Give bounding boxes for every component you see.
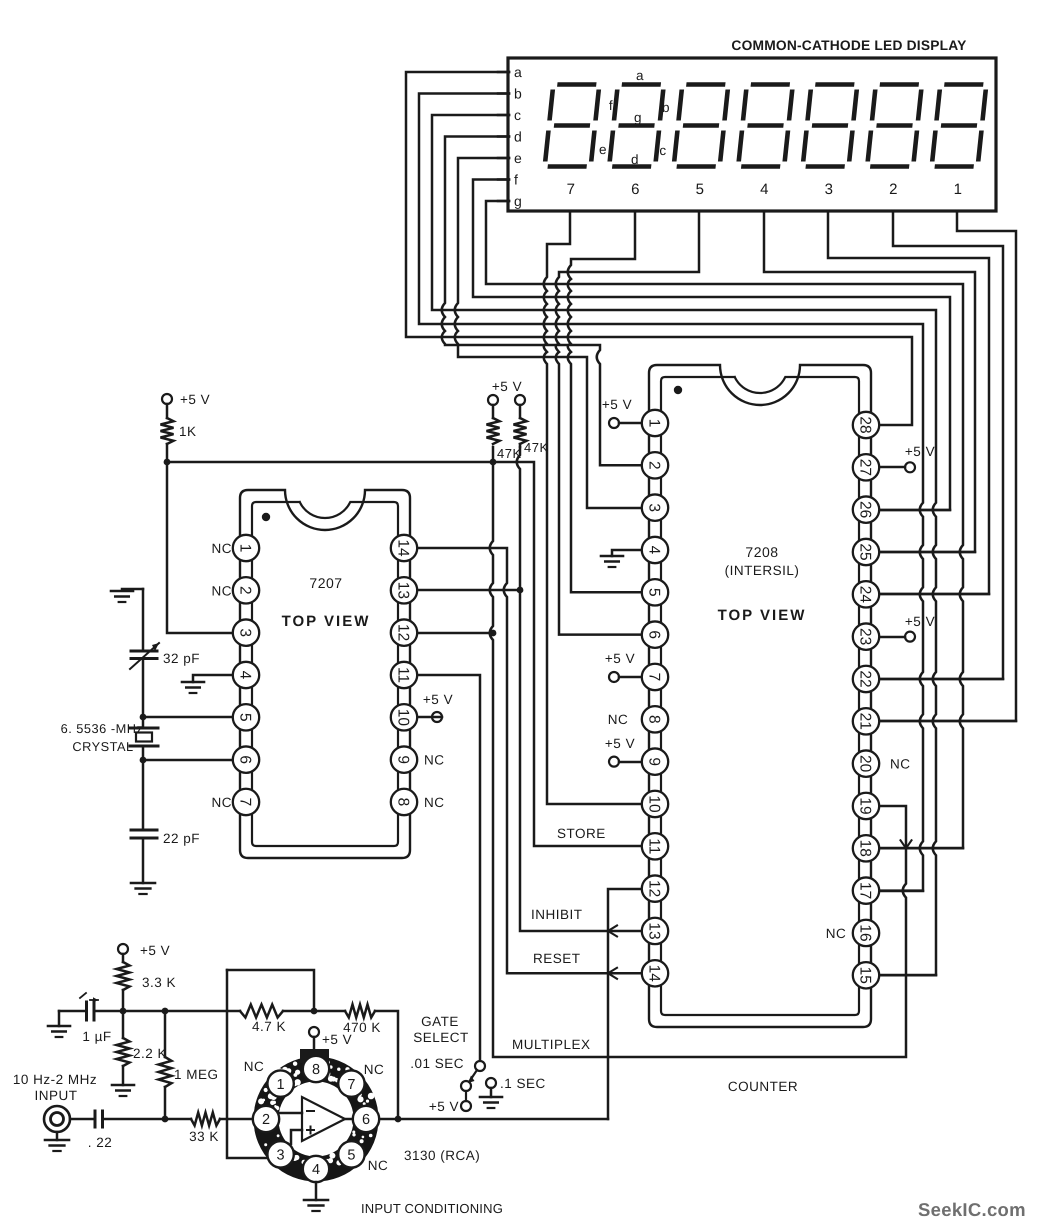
svg-text:6. 5536 -MHz: 6. 5536 -MHz (61, 721, 144, 736)
label MULTIPLEX (512, 1037, 591, 1052)
feedback top loop wire (227, 970, 314, 1011)
display digit 6 seven-segment glyph (609, 85, 664, 167)
svg-text:4: 4 (760, 181, 769, 198)
svg-text:SELECT: SELECT (413, 1030, 469, 1045)
svg-text:9: 9 (646, 757, 663, 766)
wire 1K pull-up line to STORE (7208 pin 11) (164, 459, 642, 846)
wire 7208 pin 21 (879, 720, 1016, 723)
svg-text:NC: NC (890, 757, 911, 772)
svg-text:+5 V: +5 V (605, 651, 635, 666)
ground at 7208 pin 4 (601, 550, 642, 567)
svg-text:13: 13 (395, 582, 412, 599)
svg-text:1 µF: 1 µF (82, 1029, 111, 1044)
svg-text:NC: NC (424, 753, 445, 768)
svg-text:MULTIPLEX: MULTIPLEX (512, 1037, 591, 1052)
wire segment-c (display c to 7208 pin 15) (432, 115, 936, 975)
ground at 7207 pin 4 (182, 675, 233, 693)
label NC at 7208 pin 8 (608, 712, 629, 727)
svg-text:12: 12 (646, 880, 663, 897)
op-amp pin 8 supply tab (300, 1049, 329, 1063)
+5V terminal at 7208 pin 7 (605, 651, 642, 682)
svg-text:3: 3 (825, 181, 834, 198)
label (INTERSIL) (725, 563, 800, 578)
op-amp 3130 pins 1-8 (253, 1056, 379, 1182)
svg-text:g: g (514, 193, 522, 209)
display digit 2 seven-segment glyph (867, 85, 922, 167)
wire digit-6 (display to 7208 pin 5) (568, 211, 642, 592)
wire 7208 pin 22 (879, 678, 1003, 681)
label NC at 7207 pin 8 (424, 795, 445, 810)
svg-text:10: 10 (395, 709, 412, 727)
svg-text:TOP VIEW: TOP VIEW (282, 613, 371, 630)
capacitor 32 pF (trimmer) (130, 643, 200, 669)
label 7208 TOP VIEW (718, 607, 807, 624)
svg-text:8: 8 (312, 1062, 320, 1078)
svg-text:+5 V: +5 V (602, 397, 632, 412)
+5V terminal at 7208 pin 1 (602, 397, 642, 428)
svg-text:4.7 K: 4.7 K (252, 1019, 286, 1034)
svg-text:7: 7 (567, 181, 576, 198)
label .01 SEC (410, 1056, 464, 1071)
svg-text:24: 24 (857, 586, 874, 604)
wire 7207 pin 6 to crystal (140, 757, 233, 764)
svg-text:7208: 7208 (745, 544, 778, 560)
wire 7207 pin 12 to multiplex bus (417, 630, 496, 637)
label 4.7 K (252, 1019, 286, 1034)
svg-text:NC: NC (608, 712, 629, 727)
display digit 5 seven-segment glyph (674, 85, 729, 167)
svg-text:3: 3 (277, 1148, 285, 1164)
display digit number 6 (631, 181, 640, 198)
svg-text:NC: NC (212, 583, 233, 598)
wire segment-f (display f to 7208 pin 26) (473, 180, 950, 511)
svg-text:18: 18 (857, 840, 874, 857)
label NC at 7207 pin 9 (424, 753, 445, 768)
svg-text:22 pF: 22 pF (163, 831, 200, 846)
+5V terminal and 1K feed to 7207 pin 3 (161, 392, 234, 633)
display digit number 5 (696, 181, 705, 198)
svg-text:12: 12 (395, 624, 412, 641)
svg-text:6: 6 (362, 1112, 370, 1128)
svg-text:2.2 K: 2.2 K (133, 1046, 167, 1061)
svg-text:b: b (662, 100, 670, 115)
wire 7208 pin 18 (879, 847, 963, 850)
watermark SeekIC.com (918, 1199, 1026, 1220)
LED display module outline (508, 58, 996, 211)
svg-text:c: c (514, 107, 522, 123)
svg-text:1: 1 (954, 181, 963, 198)
+5V terminal at op-amp pin 8 (309, 1027, 352, 1049)
.1 SEC contact with ground (480, 1076, 546, 1108)
crystal Y1 6.5536 MHz (61, 721, 158, 754)
label 3130 (RCA) (404, 1148, 480, 1163)
svg-text:6: 6 (631, 181, 640, 198)
svg-text:13: 13 (646, 922, 663, 939)
svg-text:+5 V: +5 V (140, 943, 170, 958)
svg-text:f: f (609, 98, 613, 113)
wire RESET (7207 pin 14 to 7208 pin 14) (417, 548, 642, 979)
svg-text:TOP VIEW: TOP VIEW (718, 607, 807, 624)
svg-text:9: 9 (395, 755, 412, 764)
+5V terminal at 7208 pin 23 (879, 614, 935, 642)
resistor R6 1 MEG (159, 1011, 219, 1122)
svg-text:2: 2 (646, 461, 663, 470)
display digit number 4 (760, 181, 769, 198)
svg-text:27: 27 (857, 459, 874, 476)
svg-text:g: g (634, 110, 642, 125)
svg-text:17: 17 (857, 882, 874, 899)
switch S1 gate select (461, 1061, 485, 1111)
7208 pin-1 orientation dot (674, 386, 682, 394)
svg-text:7: 7 (237, 798, 254, 807)
svg-text:+5 V: +5 V (605, 736, 635, 751)
svg-text:CRYSTAL: CRYSTAL (72, 739, 133, 754)
svg-text:14: 14 (646, 965, 663, 983)
wire 7208 pin 19 to pin 15 and MULTIPLEX bus (490, 447, 912, 1057)
svg-text:INPUT: INPUT (35, 1088, 78, 1103)
resistor R5 2.2K with ground (112, 1011, 167, 1096)
svg-text:4: 4 (646, 546, 663, 555)
svg-text:21: 21 (857, 713, 874, 730)
7207 pins (233, 535, 417, 815)
ground below 22pF (131, 883, 155, 894)
display digit number 1 (954, 181, 963, 198)
7208 pins 1-14 (642, 410, 668, 987)
svg-text:1: 1 (237, 544, 254, 553)
svg-text:(INTERSIL): (INTERSIL) (725, 563, 800, 578)
wire 7208 pin 26 (879, 509, 950, 512)
label COUNTER (728, 1079, 798, 1094)
node A junction 3.3K/1uF/2.2K (120, 1008, 127, 1015)
label INHIBIT (531, 907, 583, 922)
segment letter labels on digit 6 (599, 68, 670, 167)
label 470 K (343, 1020, 381, 1035)
svg-text:SeekIC.com: SeekIC.com (918, 1199, 1026, 1220)
svg-text:NC: NC (212, 795, 233, 810)
svg-text:1K: 1K (179, 424, 197, 439)
+5V terminal at 7208 pin 27 (879, 444, 935, 472)
svg-text:. 22: . 22 (88, 1135, 113, 1150)
svg-text:RESET: RESET (533, 951, 581, 966)
wire digit-4 (display to 7208 pin 25) (764, 211, 975, 552)
7207 pin-1 orientation dot (262, 513, 270, 521)
op-amp U3 3130 package ring (258, 1060, 376, 1175)
wire 7208 pin 24 (879, 593, 989, 596)
label 7207 TOP VIEW (282, 613, 371, 630)
label NC at op-amp pin 7 (364, 1062, 385, 1077)
svg-text:+5 V: +5 V (429, 1099, 459, 1114)
wire op-amp pin 3 to non-inverting input (291, 1130, 302, 1144)
svg-text:f: f (514, 172, 518, 188)
display digit number 2 (889, 181, 898, 198)
svg-text:10: 10 (646, 795, 663, 813)
svg-text:5: 5 (696, 181, 705, 198)
svg-text:28: 28 (857, 416, 874, 433)
wire 7208 pin 17 (879, 890, 923, 893)
label GATE SELECT (413, 1014, 469, 1045)
svg-text:e: e (514, 150, 522, 166)
svg-text:6: 6 (237, 755, 254, 764)
label NC at 7207 pin 1 (212, 541, 233, 556)
label RESET (533, 951, 581, 966)
capacitor C4 .22 (70, 1111, 112, 1150)
input connector J1 (44, 1106, 70, 1151)
wire crystal to 22pF (142, 746, 145, 830)
svg-text:2: 2 (262, 1112, 270, 1128)
svg-text:NC: NC (244, 1059, 265, 1074)
svg-text:1: 1 (646, 419, 663, 428)
resistor R3 47K (right) (514, 395, 549, 455)
svg-text:INPUT CONDITIONING: INPUT CONDITIONING (361, 1201, 503, 1216)
svg-text:GATE: GATE (421, 1014, 459, 1029)
IC U1 7207 package outline (240, 490, 410, 858)
label NC at 7207 pin 7 (212, 795, 233, 810)
svg-text:47K: 47K (497, 446, 522, 461)
svg-text:47K: 47K (524, 440, 549, 455)
svg-text:b: b (514, 86, 522, 102)
svg-text:NC: NC (424, 795, 445, 810)
svg-text:+5 V: +5 V (423, 692, 453, 707)
svg-text:33 K: 33 K (189, 1129, 219, 1144)
svg-text:20: 20 (857, 755, 874, 773)
wire segment-d (display d to 7208 pin 2) (442, 137, 642, 466)
label NC at op-amp pin 5 (368, 1158, 389, 1173)
wire 7208 pin 15 (879, 974, 936, 977)
label 7207 (309, 575, 342, 591)
svg-text:8: 8 (395, 798, 412, 807)
display digit 7 seven-segment glyph (545, 85, 600, 167)
wire segment-b (display b to 7208 pin 17) (419, 94, 923, 891)
svg-text:2: 2 (889, 181, 898, 198)
svg-text:e: e (599, 142, 607, 157)
svg-text:4: 4 (237, 671, 254, 680)
svg-text:32 pF: 32 pF (163, 651, 200, 666)
wire plus-input (loop to op-amp pin 3) (227, 970, 268, 1158)
svg-text:3: 3 (646, 503, 663, 512)
svg-text:NC: NC (364, 1062, 385, 1077)
svg-text:19: 19 (857, 797, 874, 814)
svg-text:3: 3 (237, 628, 254, 637)
label NC at 7207 pin 2 (212, 583, 233, 598)
7208 pins 15-28 (853, 412, 879, 989)
wire 32pF to crystal (142, 659, 145, 729)
+5V terminal at 7207 pin 10 (417, 692, 453, 722)
svg-text:23: 23 (857, 628, 874, 645)
wire digit-1 (display to 7208 pin 21) (879, 211, 1016, 721)
svg-text:+5 V: +5 V (322, 1032, 352, 1047)
resistor R7 33K (103, 1113, 254, 1145)
label COMMON-CATHODE LED DISPLAY (731, 38, 966, 53)
svg-text:16: 16 (857, 924, 874, 941)
svg-text:COMMON-CATHODE LED DISPLAY: COMMON-CATHODE LED DISPLAY (731, 38, 966, 53)
svg-text:COUNTER: COUNTER (728, 1079, 798, 1094)
wire op-amp output to counter bus (345, 1118, 608, 1121)
svg-text:NC: NC (212, 541, 233, 556)
svg-text:3.3 K: 3.3 K (142, 975, 176, 990)
wire 7207 pin 13 to inhibit bus (417, 589, 520, 592)
svg-text:INHIBIT: INHIBIT (531, 907, 583, 922)
svg-text:d: d (631, 152, 639, 167)
display digit number 7 (567, 181, 576, 198)
svg-text:8: 8 (646, 715, 663, 724)
svg-text:25: 25 (857, 543, 874, 560)
+5V label above 47K resistors (492, 379, 522, 394)
wire op-amp pin 2 to inverting input (279, 1112, 302, 1115)
hop of 47K lead over STORE line (0, 0, 1, 1)
svg-text:5: 5 (646, 588, 663, 597)
display digit number 3 (825, 181, 834, 198)
wire digit-3 (display to 7208 pin 24) (828, 211, 989, 594)
wire digit-2 (display to 7208 pin 22) (879, 211, 1003, 679)
svg-text:NC: NC (368, 1158, 389, 1173)
svg-text:d: d (514, 129, 522, 145)
svg-text:a: a (636, 68, 644, 83)
display digit 3 seven-segment glyph (803, 85, 858, 167)
wire segment-g (display g to 7208 pin 18) (486, 201, 963, 848)
capacitor C3 1uF with ground (48, 993, 123, 1044)
wire 7207 pin 5 to crystal (140, 714, 233, 721)
label STORE (557, 826, 606, 841)
display digit 4 seven-segment glyph (738, 85, 793, 167)
svg-text:7: 7 (646, 673, 663, 682)
display digit 1 seven-segment glyph (932, 85, 987, 167)
svg-text:3130 (RCA): 3130 (RCA) (404, 1148, 480, 1163)
svg-text:26: 26 (857, 501, 874, 518)
svg-text:7207: 7207 (309, 575, 342, 591)
svg-text:+5 V: +5 V (905, 444, 935, 459)
svg-text:NC: NC (826, 926, 847, 941)
svg-text:c: c (659, 143, 666, 158)
op-amp triangle symbol (302, 1097, 345, 1141)
resistor R4 3.3K (117, 954, 177, 1011)
label NC at 7208 pin 16 (826, 926, 847, 941)
wire 22pF to ground (142, 838, 145, 883)
wire 7208 pin 25 (879, 551, 975, 554)
svg-text:11: 11 (646, 838, 663, 854)
label NC at 7208 pin 20 (890, 757, 911, 772)
feedback network line (3.3K node to 470K) (123, 1005, 401, 1123)
ground at op-amp pin 4 (304, 1182, 328, 1211)
svg-text:a: a (514, 64, 522, 80)
svg-text:7: 7 (347, 1077, 355, 1093)
wire segment-e (display e to 7208 pin 3) (455, 158, 642, 508)
svg-text:14: 14 (395, 539, 412, 557)
svg-text:+5 V: +5 V (905, 614, 935, 629)
wire crystal chain top (142, 589, 145, 651)
svg-text:5: 5 (347, 1148, 355, 1164)
resistor R2 47K (left) (487, 395, 522, 461)
wire 7207 pin 11 to gate select (417, 675, 480, 1061)
display segment input ticks a-g (498, 64, 522, 209)
+5V terminal at 7208 pin 9 (605, 736, 642, 767)
svg-text:+5 V: +5 V (180, 392, 210, 407)
svg-text:4: 4 (312, 1162, 320, 1178)
wire INHIBIT (47K pull-up to 7208 pin 13) (517, 447, 642, 936)
svg-text:2: 2 (237, 586, 254, 595)
label 7208 (745, 544, 778, 560)
svg-text:11: 11 (395, 667, 412, 683)
svg-text:22: 22 (857, 670, 874, 687)
wire 7208 pin 12 to op-amp output bus (608, 889, 642, 1119)
svg-text:15: 15 (857, 967, 874, 984)
svg-text:+5 V: +5 V (492, 379, 522, 394)
svg-text:.1 SEC: .1 SEC (500, 1076, 546, 1091)
wire digit-7 (display to 7208 pin 10) (544, 211, 642, 804)
svg-text:STORE: STORE (557, 826, 606, 841)
label NC at op-amp pin 1 (244, 1059, 265, 1074)
svg-text:10 Hz-2 MHz: 10 Hz-2 MHz (13, 1072, 97, 1087)
label 10 Hz-2 MHz INPUT (13, 1072, 97, 1103)
svg-text:5: 5 (237, 713, 254, 722)
svg-text:1 MEG: 1 MEG (174, 1067, 219, 1082)
svg-text:1: 1 (277, 1077, 285, 1093)
capacitor C2 22 pF (131, 830, 200, 846)
label INPUT CONDITIONING (361, 1201, 503, 1216)
wire digit-5 (display to 7208 pin 6) (556, 211, 699, 635)
svg-text:6: 6 (646, 630, 663, 639)
IC U2 7208 package outline (649, 365, 871, 1027)
wire segment-a (display a to 7208 pin 28) (406, 72, 912, 425)
svg-text:.01 SEC: .01 SEC (410, 1056, 464, 1071)
label +5 V at switch (429, 1099, 459, 1114)
+5V terminal above 3.3K (118, 943, 170, 958)
ground at crystal top (111, 589, 143, 602)
